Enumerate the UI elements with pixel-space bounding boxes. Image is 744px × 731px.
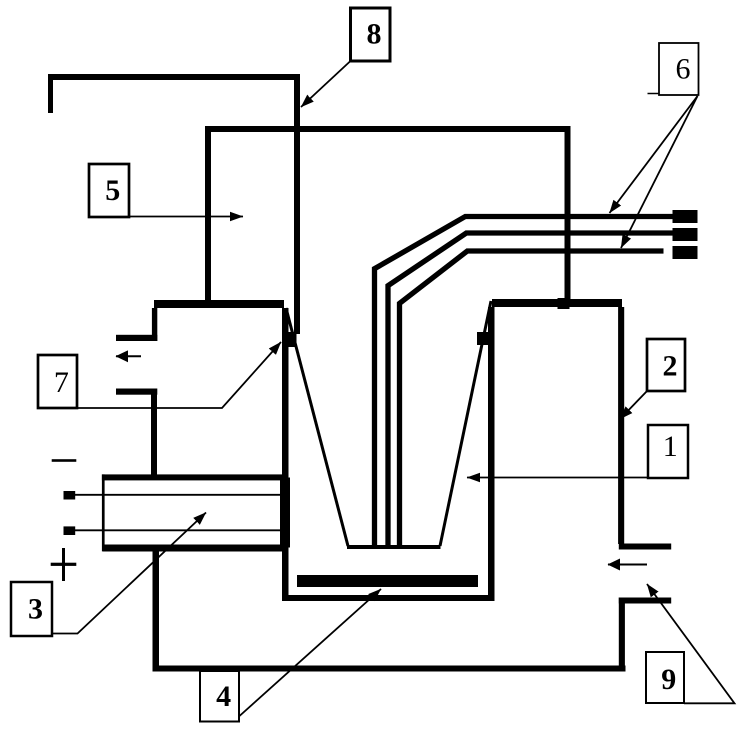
node minus sign — [52, 459, 77, 462]
wire thermocouple C — [400, 251, 664, 548]
leader 6 tick — [648, 93, 660, 95]
label box 5 — [89, 164, 129, 217]
wire heater element line 1 — [75, 494, 282, 496]
wire inlet port lower lip — [619, 598, 671, 604]
wire crucible 1 left wall — [286, 308, 348, 546]
node heater 3 right contact bar — [280, 478, 290, 548]
wire inner vessel bottom — [282, 595, 495, 601]
wire left lip bar — [154, 300, 284, 308]
label box 7 — [38, 355, 77, 408]
wire crucible 1 bottom — [347, 545, 441, 549]
leader 6a — [610, 96, 698, 213]
wire outlet port lower lip — [116, 389, 157, 395]
node heater terminal upper — [64, 491, 76, 500]
label box 2 — [647, 339, 685, 391]
node 8 feed tube vertical — [294, 74, 300, 334]
svg-text:5: 5 — [105, 174, 120, 207]
wire thermocouple A — [375, 217, 674, 549]
wire heater 3 bottom edge — [103, 545, 287, 552]
leader 8 — [301, 61, 351, 108]
wire chamber 5 right edge — [565, 126, 571, 307]
node left contact block — [284, 332, 297, 347]
wire heater 3 top edge — [102, 474, 288, 480]
node junction block — [558, 298, 570, 309]
leader 5 — [129, 216, 243, 218]
wire inlet port upper lip — [619, 544, 671, 550]
wire crucible 1 right wall — [440, 301, 491, 546]
leader 3 — [52, 513, 206, 634]
node terminal block 3 — [673, 246, 698, 259]
node terminal block 1 — [673, 210, 698, 223]
svg-text:4: 4 — [216, 680, 231, 713]
svg-text:6: 6 — [676, 53, 691, 86]
label box 6 — [659, 43, 699, 95]
node terminal block 2 — [673, 228, 698, 241]
svg-text:1: 1 — [663, 430, 678, 463]
leader 4 — [235, 589, 381, 720]
wire outer right wall upper — [618, 307, 624, 544]
leader 1 — [467, 477, 648, 479]
leader 2 — [620, 390, 648, 419]
wire outlet port upper lip — [116, 335, 157, 341]
leader 6b — [621, 96, 698, 248]
wire chamber 5 top edge — [205, 126, 571, 132]
label box 3 — [11, 582, 52, 636]
node right contact block — [477, 332, 490, 345]
label box 4 — [200, 671, 239, 722]
wire outer left wall lower — [153, 551, 160, 671]
inlet flow arrow — [608, 564, 647, 566]
svg-text:3: 3 — [28, 593, 43, 626]
svg-text:2: 2 — [663, 350, 678, 383]
wire inner vessel left wall — [282, 308, 289, 601]
wire outer left wall upper — [152, 308, 157, 341]
wire heater 3 left edge — [102, 474, 105, 551]
label box 9 — [646, 652, 684, 703]
node heater terminal lower — [64, 526, 76, 535]
outlet flow arrow — [116, 355, 141, 357]
wire top cover bar — [48, 74, 300, 80]
wire top-left hook vertical — [48, 74, 53, 113]
leader 7 — [77, 342, 281, 408]
svg-text:8: 8 — [367, 18, 382, 51]
leader 9 — [647, 584, 735, 703]
wire chamber 5 left edge — [205, 126, 211, 308]
node susceptor plate 4 — [297, 575, 478, 587]
wire outer left wall mid — [151, 389, 157, 475]
svg-text:7: 7 — [54, 366, 69, 399]
label box 1 — [648, 425, 688, 478]
wire inner vessel right wall — [488, 307, 495, 601]
label box 8 — [351, 8, 391, 61]
wire heater element line 2 — [75, 529, 282, 531]
wire outer right wall lower — [619, 598, 625, 672]
svg-text:9: 9 — [661, 663, 676, 696]
node plus sign — [62, 548, 65, 581]
wire right lip bar — [492, 299, 622, 307]
wire outer bottom edge — [153, 666, 626, 672]
wire thermocouple B — [388, 233, 673, 548]
